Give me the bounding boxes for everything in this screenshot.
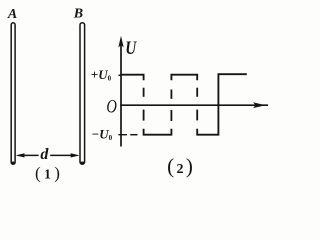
dashed vertical transition at V1 [143,88,145,121]
svg-text:O: O [106,97,117,118]
dashed vertical transition at V2 [170,90,172,122]
svg-text:U: U [125,38,137,59]
svg-text:B: B [73,7,83,22]
t axis (horizontal) with arrowhead [120,102,268,108]
dashed -U0 reference line from axis to first low segment [130,134,137,136]
tick at +U0 [118,74,121,76]
tick at -U0 [118,134,127,136]
svg-text:d: d [40,146,49,163]
plate A [11,23,16,165]
U axis (vertical) with arrowhead [118,36,123,147]
dashed vertical transition at V3 [196,88,198,121]
square wave solid segments [121,74,247,135]
plate B [80,23,85,165]
d dimension arrow between plates [16,153,80,157]
svg-text:(1): (1) [35,164,60,183]
svg-text:A: A [7,7,17,22]
